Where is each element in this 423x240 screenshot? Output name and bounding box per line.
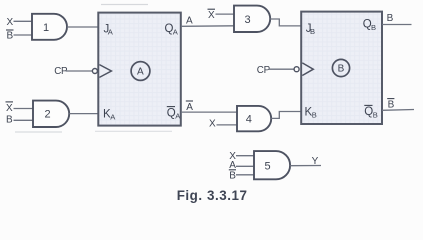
svg-text:Y: Y: [312, 156, 319, 167]
svg-text:1: 1: [43, 22, 49, 34]
svg-text:CP: CP: [257, 65, 271, 76]
svg-text:B: B: [387, 13, 394, 24]
pin label KA: [103, 109, 116, 122]
flip-flop A body: [98, 13, 181, 126]
wire: [269, 68, 295, 70]
and-gate 4: [237, 106, 271, 131]
wire: [181, 25, 234, 28]
node B-bar (gate 5 input): [229, 170, 237, 182]
wire: [67, 26, 98, 28]
wire: [270, 19, 301, 26]
wire: [382, 24, 412, 26]
wire: [236, 174, 254, 176]
svg-text:X: X: [7, 17, 14, 28]
node X-bar (gate 2 input): [6, 102, 14, 114]
and-gate 1: [32, 14, 67, 40]
svg-text:B: B: [371, 23, 376, 32]
pin label QB: [363, 19, 376, 32]
svg-text:A: A: [137, 67, 144, 78]
node B-bar: [387, 99, 394, 111]
and-gate 5: [254, 151, 290, 179]
wire: [181, 111, 237, 113]
pin label QA: [165, 23, 179, 36]
svg-text:X: X: [6, 103, 13, 114]
svg-text:5: 5: [265, 161, 271, 173]
wire: [14, 20, 33, 22]
wire: [236, 165, 254, 167]
svg-text:B: B: [373, 110, 378, 119]
wire: [14, 34, 33, 36]
svg-text:B: B: [7, 31, 14, 42]
svg-text:B: B: [310, 27, 315, 36]
clock edge triangle (FF B): [302, 63, 313, 76]
pin label KB: [305, 107, 317, 120]
pin label JA: [104, 24, 114, 37]
node B-bar (gate 1 input): [6, 30, 14, 42]
svg-text:X: X: [209, 119, 216, 130]
and-gate 2: [33, 101, 69, 127]
wire: [69, 113, 97, 115]
clock bubble (FF A): [92, 69, 97, 74]
svg-text:B: B: [229, 170, 236, 181]
wire: [290, 165, 321, 167]
svg-text:3: 3: [245, 14, 251, 26]
wire: [216, 13, 235, 15]
svg-text:X: X: [208, 10, 215, 21]
svg-text:2: 2: [45, 109, 51, 121]
clock bubble (FF B): [294, 67, 299, 72]
node A-bar: [186, 101, 194, 113]
svg-text:B: B: [312, 111, 317, 120]
FF A name circle: [131, 62, 150, 81]
clock edge triangle (FF A): [99, 65, 111, 78]
scan ghost line top: [101, 4, 148, 6]
svg-text:B: B: [6, 115, 13, 126]
svg-text:B: B: [338, 64, 345, 75]
wire: [14, 119, 34, 121]
wire: [382, 109, 414, 112]
wire: [14, 108, 34, 110]
svg-text:B: B: [388, 99, 395, 110]
svg-text:CP: CP: [54, 66, 68, 77]
svg-text:A: A: [186, 16, 193, 27]
scan ghost line below gate 2: [15, 131, 62, 133]
FF B name circle: [332, 59, 349, 76]
pin label JB: [306, 23, 315, 36]
wire: [66, 70, 93, 72]
pin label QB-bar: [364, 105, 377, 119]
svg-text:4: 4: [246, 114, 252, 126]
wire: [271, 112, 301, 119]
flip-flop B body: [301, 12, 382, 124]
scan ghost line below flip-flop A: [95, 130, 172, 132]
wire: [217, 124, 238, 126]
pin label QA-bar: [167, 107, 181, 121]
svg-text:A: A: [186, 102, 193, 113]
wire: [236, 155, 254, 157]
and-gate 3: [234, 6, 270, 32]
svg-text:Fig. 3.3.17: Fig. 3.3.17: [177, 188, 248, 203]
node X-bar (gate 3 input): [208, 9, 216, 21]
